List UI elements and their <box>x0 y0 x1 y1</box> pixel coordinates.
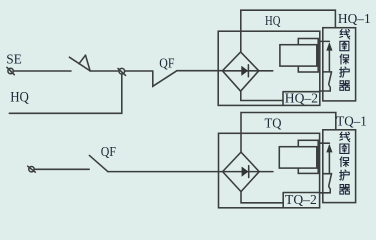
terminal X2 (junction plug) <box>118 68 126 75</box>
rectifier bridge (diamond) HQ <box>222 52 258 91</box>
wire switch to node <box>90 70 119 72</box>
diode arrow inside rectifier TQ <box>242 167 249 177</box>
svg-text:HQ: HQ <box>265 13 281 28</box>
diode (up arrow) in protector TQ-1 <box>326 144 332 174</box>
wire hook rectifier top to protector TQ-1 <box>241 113 336 153</box>
wire through rectifier TQ <box>223 171 273 173</box>
svg-text:SE: SE <box>6 53 22 68</box>
box TQ-2 module outline <box>219 133 320 208</box>
position switch SE (normally-open contact) <box>69 55 90 71</box>
char qi (device) <box>340 81 350 91</box>
box coil protector TQ-1 <box>323 130 356 203</box>
breaker QF top (contact) <box>153 71 177 87</box>
wire hook rectifier top to protector HQ-1 <box>241 10 336 52</box>
surge element (curve) in protector HQ-1 <box>329 72 332 91</box>
label coil-protector characters (TQ-1) <box>340 132 350 194</box>
wire protector input <box>320 40 330 42</box>
wire HQ feeder <box>9 74 122 113</box>
char bao (protect) <box>340 54 349 64</box>
wire QF to rectifier TQ-2 <box>108 171 223 173</box>
char hu (guard) <box>340 170 350 180</box>
relay coil HQ front winding <box>280 45 317 66</box>
relay coil HQ rear winding <box>298 39 318 73</box>
svg-text:QF: QF <box>159 55 174 70</box>
wire protector mid node <box>323 71 332 73</box>
diode arrow inside rectifier <box>241 66 248 76</box>
wire terminal to breaker QF bottom <box>34 168 89 170</box>
svg-text:QF: QF <box>101 144 116 159</box>
svg-text:HQ–2: HQ–2 <box>285 90 318 105</box>
diode cathode bar <box>247 65 249 77</box>
wire rectifier bottom to TQ-2 label <box>241 192 283 203</box>
wire protector return TQ <box>320 192 331 194</box>
wire SE to switch <box>13 70 71 72</box>
relay coil TQ front winding <box>279 147 317 168</box>
wire rectifier bottom to HQ-2 label <box>241 91 283 100</box>
char quan (coil) <box>340 144 349 153</box>
svg-text:TQ–2: TQ–2 <box>285 192 317 207</box>
wire node to breaker QF <box>125 70 153 72</box>
wire protector input TQ <box>320 142 330 144</box>
wire through rectifier <box>222 70 272 72</box>
wire QF to rectifier HQ-2 <box>177 70 222 72</box>
surge element (curve) in protector TQ-1 <box>329 174 332 193</box>
char xian (wire) <box>340 29 350 39</box>
label coil-protector characters (HQ-1) <box>340 29 350 90</box>
label partition TQ-2 <box>283 193 319 208</box>
wire protector mid node TQ <box>323 173 332 175</box>
wire protector return <box>320 90 330 92</box>
label partition HQ-2 <box>283 92 320 106</box>
char bao (protect) <box>340 157 349 167</box>
svg-text:HQ–1: HQ–1 <box>338 11 371 26</box>
char quan (coil) <box>340 41 349 50</box>
svg-text:TQ–1: TQ–1 <box>336 113 367 128</box>
char qi (device) <box>340 185 350 195</box>
box coil protector HQ-1 <box>323 28 356 101</box>
diode cathode bar TQ <box>248 166 250 178</box>
relay coil TQ rear winding <box>298 140 318 173</box>
breaker QF bottom (contact blade) <box>89 155 107 171</box>
box HQ-2 module outline <box>218 31 320 105</box>
diode (up arrow) in protector HQ-1 <box>326 42 332 72</box>
terminal X3 (bottom feeder plug) <box>28 166 36 172</box>
terminal X1 (SE input plug) <box>7 67 14 74</box>
char xian (wire) <box>340 132 350 142</box>
rectifier bridge (diamond) TQ <box>223 152 260 192</box>
char hu (guard) <box>340 67 350 77</box>
svg-text:TQ: TQ <box>265 115 282 130</box>
svg-text:HQ: HQ <box>10 89 29 105</box>
